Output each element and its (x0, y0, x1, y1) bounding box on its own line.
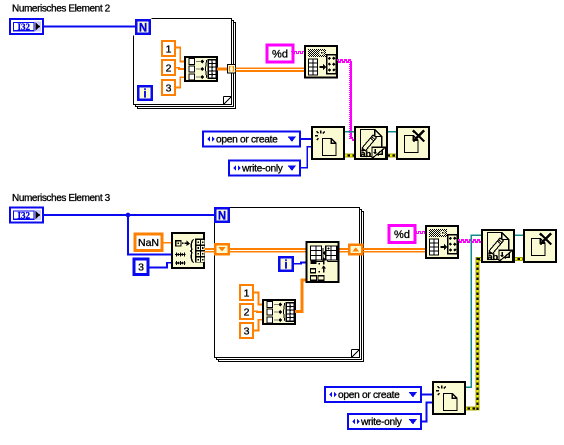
wire: refnum Open to Write (teal) (343, 131, 356, 133)
wire: build array up to Replace Array Subset new-element input (295, 310, 302, 313)
numeric constant 1 (loop 1) (162, 41, 175, 56)
Write to Text File node (bottom) (482, 230, 514, 262)
wire: refnum from Open up to Write node (teal) (465, 386, 472, 388)
wire: error cluster Write to Close (387, 154, 398, 158)
wire: enum write-only to Open node access (bottom) (421, 402, 433, 421)
svg-text:1: 1 (244, 287, 250, 299)
control terminal I32 (Numerisches Element 2) (10, 19, 43, 34)
numeric constant 2 (loop 2) (240, 304, 253, 319)
numeric constant 1 (loop 2) (240, 285, 253, 300)
wire: constant 2 to build array (loop 2) (253, 310, 263, 313)
Initialize Array node (172, 233, 204, 268)
numeric constant 3 (loop 2) (240, 323, 253, 338)
wire: string array hook into Write node text input (351, 137, 353, 139)
for-loop 2 count terminal N (214, 207, 230, 223)
svg-text:i: i (284, 260, 287, 272)
wire: error cluster from Open up to Write node (465, 407, 479, 411)
control terminal I32 (Numerisches Element 3) (10, 208, 43, 223)
wire: string array output of format node (squiggle right then down) (337, 59, 339, 61)
wire: constant 1 to build-array input 1 (175, 48, 185, 62)
for-loop 1 frame (138, 23, 236, 109)
svg-text:NaN: NaN (138, 237, 159, 249)
numeric constant 3 (loop 1) (162, 80, 175, 95)
Open/Create/Replace File node (top) (312, 127, 344, 159)
svg-text:ab: ab (487, 252, 498, 263)
Open/Create/Replace File node (bottom) (433, 382, 465, 414)
Replace Array Subset node (307, 242, 339, 282)
left shift register (down arrow) (214, 243, 230, 256)
svg-text:2: 2 (166, 62, 172, 74)
wire: string array output to Write node (bottom) (458, 239, 460, 241)
constant NaN (135, 234, 162, 251)
svg-text:%d: %d (272, 48, 288, 60)
wire: %d to bottom format node (pink squiggle) (415, 231, 417, 232)
1D array wire: Replace Array Subset to right shift register (338, 248, 350, 250)
svg-text:I32: I32 (18, 22, 31, 32)
wire: i terminal to Replace Array Subset index input (294, 263, 307, 264)
wire: build array output to indexing tunnel (217, 68, 228, 71)
svg-text:3: 3 (244, 325, 250, 337)
enum constant: open or create (bottom) (325, 387, 421, 402)
wire: error cluster Open to Write (343, 154, 356, 158)
1D array wire: right shift register to format node (363, 248, 427, 250)
1D array wire: left shift register to Replace Array Subset (229, 248, 307, 250)
numeric constant 3 (dimension size) (134, 259, 148, 275)
wire: constant 3 to build array (loop 2) (253, 320, 263, 331)
Close File node (top) (397, 127, 429, 159)
string constant %d (bottom) (389, 226, 415, 243)
for-loop 1 iteration terminal i (137, 85, 153, 101)
wire: constant 2 to build-array input 2 (175, 68, 185, 69)
build array node (loop 1) (185, 57, 217, 81)
wire: I32 control to bottom loop N terminal (42, 214, 215, 216)
wire: error cluster Write to Close (bottom) (514, 257, 525, 261)
svg-text:i: i (143, 89, 146, 101)
wire: enum open-or-create to Open node (bottom) (420, 394, 434, 396)
wire: branch down to Initialize Array dimension input (128, 215, 173, 254)
for-loop 2 frame (219, 212, 364, 362)
svg-text:Numerisches Element 3: Numerisches Element 3 (12, 193, 111, 204)
svg-text:I32: I32 (18, 210, 31, 220)
wire junction dot (126, 213, 131, 218)
svg-text:N: N (139, 23, 147, 35)
wire: %d string to format node (pink squiggle) (291, 51, 293, 52)
svg-text:open or create: open or create (216, 135, 278, 146)
format node: number array to string array (top) (305, 46, 337, 78)
wire: NaN constant to Initialize Array element input (161, 242, 173, 244)
svg-text:open or create: open or create (338, 390, 400, 401)
svg-text:N: N (218, 211, 226, 223)
indexing tunnel [] on loop 1 right border (228, 65, 236, 74)
wire: enum open-or-create to Open node (299, 138, 313, 140)
svg-text:write-only: write-only (360, 417, 403, 428)
Close File node (bottom) (524, 230, 556, 262)
svg-text:%d: %d (394, 229, 410, 241)
Write to Text File node (top) (355, 127, 387, 159)
svg-text:2: 2 (244, 306, 250, 318)
wire: I32 control to For-loop N terminal (blue scalar) (42, 26, 136, 28)
svg-text:3: 3 (166, 82, 172, 94)
svg-text:ab: ab (360, 149, 371, 160)
long 1D array wire: init array to left shift register (205, 248, 216, 250)
wire: refnum Write to Close (teal) (387, 131, 398, 133)
for-loop 1 count terminal N (132, 18, 151, 36)
wire: constant 1 to build array (loop 2) (253, 293, 263, 305)
wire: constant 3 to build-array input 3 (175, 77, 185, 87)
numeric constant 2 (loop 1) (162, 60, 175, 75)
wire: enum write-only to Open node access input (300, 147, 313, 168)
wire: 1D numeric array from tunnel to format node (236, 67, 307, 69)
svg-text:3: 3 (138, 262, 144, 274)
string constant %d (top) (267, 45, 293, 62)
wire: string array vertical run down to Write node (350, 61, 352, 139)
svg-text:write-only: write-only (241, 164, 284, 175)
enum constant: open or create (top) (203, 132, 300, 147)
wire: refnum Write to Close (bottom, teal) (514, 234, 525, 236)
enum constant: write-only (bottom) (348, 414, 421, 429)
build array node (loop 2) (263, 300, 295, 324)
right shift register (up arrow) (348, 244, 364, 256)
svg-text:Numerisches Element 2: Numerisches Element 2 (12, 4, 111, 15)
svg-text:1: 1 (166, 43, 172, 55)
iteration terminal i (loop 2) (278, 256, 294, 272)
format node: number array to string array (bottom) (426, 226, 458, 258)
enum constant: write-only (top) (229, 161, 300, 176)
wire: constant 3 to Initialize Array size input (148, 263, 173, 268)
